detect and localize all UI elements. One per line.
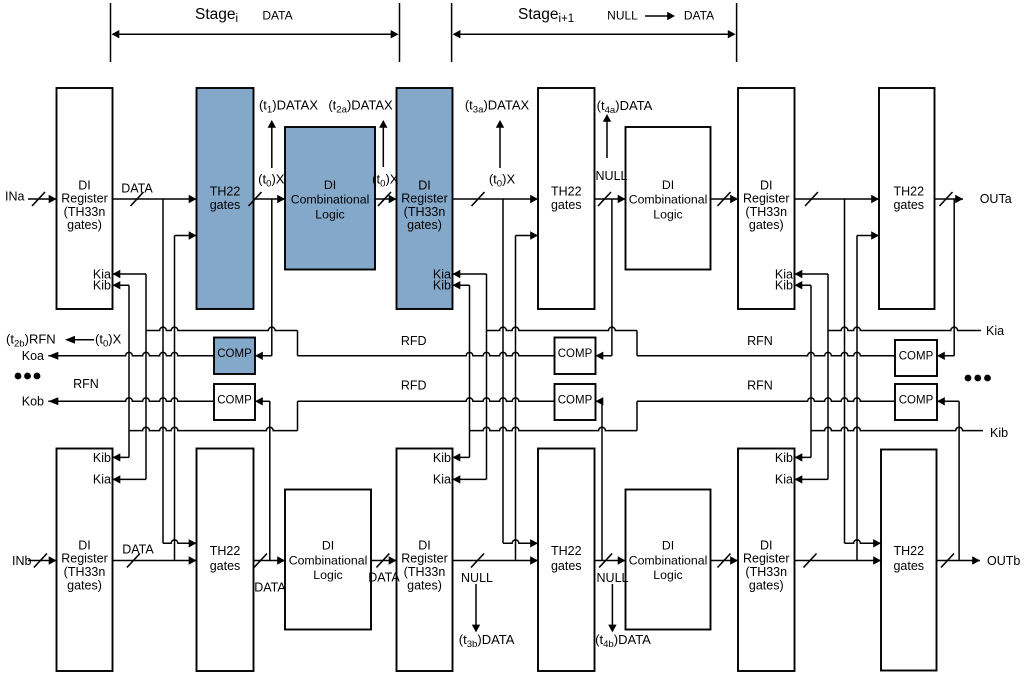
slash bus A6-A7 xyxy=(718,192,731,206)
wire Kib into bottom register stage1 xyxy=(113,456,130,458)
wire INb input line xyxy=(28,560,57,562)
slash bus A7-A8 xyxy=(805,192,818,206)
svg-text:(TH33n: (TH33n xyxy=(404,565,446,579)
box DI Combinational Logic A3 (blue) xyxy=(285,127,375,270)
box DI Register B4 xyxy=(397,449,453,672)
wire top data A1-A2 xyxy=(113,198,197,200)
wire RFN elbow vertical b #2 xyxy=(636,401,638,430)
svg-text:DATA: DATA xyxy=(262,9,292,23)
svg-text:Register: Register xyxy=(401,192,448,206)
svg-text:(TH33n: (TH33n xyxy=(64,205,106,219)
box DI Register A1 (top stage i input register) xyxy=(57,88,113,309)
svg-text:COMP: COMP xyxy=(558,348,593,360)
double arrow Stage i+1 xyxy=(460,33,728,35)
wire top data A3-A4 xyxy=(375,198,397,200)
wire Kib into bottom register stage2 xyxy=(453,456,470,458)
svg-text:Register: Register xyxy=(401,552,448,566)
wire bottom data B6-B7 xyxy=(711,560,739,562)
wire RFD upper link stage-i (L1) xyxy=(146,327,298,330)
wire bottom data B2-B3 xyxy=(254,560,286,562)
wire bottom data B4-B5 xyxy=(453,560,539,562)
svg-text:TH22: TH22 xyxy=(210,544,241,558)
wire Kib input from right edge xyxy=(811,427,983,430)
svg-text:Combinational: Combinational xyxy=(291,193,370,207)
wire COMP row-b feed vertical #2 xyxy=(601,401,603,560)
wire Kib into bottom register stage3 xyxy=(795,456,812,458)
wire bottom data B5-B6 xyxy=(595,560,626,562)
wire cross vertical top-data to bottom TH22 stage1 xyxy=(162,199,164,543)
svg-text:INb: INb xyxy=(12,554,32,568)
svg-text:NULL: NULL xyxy=(597,571,629,585)
slash bus B6-B7 xyxy=(718,554,731,568)
slash bus A2-A3 xyxy=(249,192,262,206)
wire cross vertical bottom-data to top TH22 stage2 xyxy=(515,236,517,561)
svg-text:DATA: DATA xyxy=(121,182,153,196)
wire top data A6-A7 xyxy=(711,198,739,200)
svg-text:DI: DI xyxy=(760,179,773,193)
svg-text:Kib: Kib xyxy=(990,426,1008,440)
svg-text:Kib: Kib xyxy=(93,451,111,465)
double arrow Stage i xyxy=(119,33,391,35)
slash bus A1-A2 xyxy=(131,192,144,206)
svg-text:gates: gates xyxy=(893,559,924,573)
wire elbow into bottom TH22 second input stage2 xyxy=(503,540,538,543)
arrow NULL to DATA xyxy=(645,15,668,17)
box TH22 gates B2 xyxy=(197,449,254,672)
svg-text:DI: DI xyxy=(418,179,431,193)
svg-text:Kia: Kia xyxy=(986,324,1004,338)
svg-text:gates: gates xyxy=(210,198,241,212)
box COMP C1 (blue) xyxy=(214,338,255,375)
wire elbow into bottom TH22 second input stage3 xyxy=(845,540,882,543)
wire Kia into bottom register stage2 xyxy=(453,478,487,480)
svg-text:NULL: NULL xyxy=(596,169,628,183)
svg-text:Kib: Kib xyxy=(433,279,451,293)
svg-text:DATA: DATA xyxy=(122,543,154,557)
wire Kia vertical stage2 xyxy=(486,274,488,479)
annotation down arrow t3b xyxy=(475,584,477,626)
slash INb bus xyxy=(34,554,47,568)
box TH22 gates A8 xyxy=(879,88,935,309)
svg-text:Combinational: Combinational xyxy=(629,553,708,567)
slash bus B4-B5 xyxy=(471,554,484,568)
svg-text:Koa: Koa xyxy=(22,349,44,363)
wire bottom data B7-B8 xyxy=(795,560,882,562)
box DI Register B1 (bottom) xyxy=(57,449,113,672)
svg-text:OUTa: OUTa xyxy=(980,192,1012,206)
svg-text:NULL: NULL xyxy=(461,571,493,585)
svg-text:DI: DI xyxy=(662,178,674,192)
wire top data A4-A5 xyxy=(453,198,539,200)
svg-text:(TH33n: (TH33n xyxy=(64,565,106,579)
svg-text:DATA: DATA xyxy=(254,581,286,595)
wire cross vertical top-data to bottom TH22 stage2 xyxy=(502,199,504,543)
wire bottom data B3-B4 xyxy=(371,560,397,562)
slash bus A5-A6 xyxy=(598,192,611,206)
wire Kob output line from COMP C2 xyxy=(48,398,214,401)
slash bus A8-OUTa xyxy=(940,192,953,206)
svg-text:Stagei​: Stagei​ xyxy=(195,6,238,25)
svg-text:DI: DI xyxy=(662,539,674,553)
svg-text:DATA: DATA xyxy=(368,571,400,585)
slash bus B1-B2 xyxy=(127,554,140,568)
wire Kib into top register stage3 xyxy=(795,284,812,286)
wire cross vertical bottom-data to top TH22 stage3 xyxy=(856,236,858,561)
stage bracket tick right (Stage i) xyxy=(399,3,401,62)
svg-text:gates: gates xyxy=(551,198,582,212)
wire elbow into top TH22 second input stage2 xyxy=(516,235,539,237)
box TH22 gates A5 xyxy=(538,88,595,309)
wire Kia vertical stage1 xyxy=(145,274,147,479)
wire Kib vertical stage3 xyxy=(810,285,812,457)
svg-text:gates): gates) xyxy=(67,579,102,593)
box DI Register A4 (blue) xyxy=(397,88,453,309)
arrow (t0)X to RFN xyxy=(72,339,95,341)
wire Kia into bottom register stage3 xyxy=(795,478,829,480)
svg-text:gates): gates) xyxy=(749,218,784,232)
wire COMP row-b feed vertical #3 xyxy=(958,401,960,560)
wire Koa output line from COMP C1 xyxy=(48,352,214,355)
svg-text:Logic: Logic xyxy=(315,207,344,221)
slash bus B7-B8 xyxy=(804,554,817,568)
svg-text:COMP: COMP xyxy=(558,395,593,407)
wire top data A8-OUTa xyxy=(935,198,964,200)
svg-text:gates: gates xyxy=(210,559,241,573)
svg-text:RFN: RFN xyxy=(747,334,773,348)
wire RFN upper link stage-i+1 xyxy=(487,327,638,330)
wire Kib into top register stage1 xyxy=(113,284,130,286)
svg-text:Kib: Kib xyxy=(775,279,793,293)
svg-text:RFN: RFN xyxy=(73,377,99,391)
wire bottom data B1-B2 xyxy=(113,560,197,562)
box COMP C6 xyxy=(895,384,937,420)
box DI Register A7 xyxy=(738,88,795,309)
box TH22 gates A2 (blue) xyxy=(197,88,254,309)
stage bracket tick left (Stage i+1) xyxy=(451,3,453,62)
svg-text:DATA: DATA xyxy=(684,9,714,23)
wire cross vertical bottom-data to top TH22 stage1 xyxy=(174,236,176,561)
svg-text:Kia: Kia xyxy=(775,472,793,486)
box DI Combinational Logic A6 xyxy=(626,127,711,270)
wire cross vertical top-data to bottom TH22 stage3 xyxy=(844,199,846,543)
svg-text:DI: DI xyxy=(760,538,773,552)
svg-text:COMP: COMP xyxy=(217,395,252,407)
box DI Combinational Logic B6 xyxy=(626,490,711,630)
svg-text:Kib: Kib xyxy=(93,279,111,293)
svg-text:gates): gates) xyxy=(749,579,784,593)
svg-text:COMP: COMP xyxy=(217,348,252,360)
svg-text:RFD: RFD xyxy=(401,334,427,348)
svg-text:COMP: COMP xyxy=(899,395,934,407)
wire RFD line into COMP C4 xyxy=(298,398,555,401)
svg-text:NULL: NULL xyxy=(607,9,638,23)
svg-text:Logic: Logic xyxy=(653,207,682,221)
svg-text:DI: DI xyxy=(324,178,336,192)
annotation up arrow t4a xyxy=(606,120,608,158)
box COMP C3 xyxy=(555,338,596,375)
svg-text:Kib: Kib xyxy=(433,451,451,465)
annotation up arrow t1 xyxy=(271,126,273,168)
wire Kib vertical stage2 xyxy=(469,285,471,457)
svg-text:Kia: Kia xyxy=(93,472,111,486)
wire RFN line into COMP C5 xyxy=(637,352,895,355)
wire RFN lower link stage-i+1 xyxy=(470,427,638,430)
wire INa input line xyxy=(28,198,57,200)
wire top data A5-A6 xyxy=(595,198,626,200)
svg-text:TH22: TH22 xyxy=(551,544,582,558)
svg-text:Combinational: Combinational xyxy=(629,193,708,207)
svg-text:OUTb: OUTb xyxy=(987,554,1020,568)
svg-text:DI: DI xyxy=(418,538,431,552)
stage bracket tick left (Stage i) xyxy=(110,3,112,62)
svg-text:(TH33n: (TH33n xyxy=(745,205,787,219)
wire RFN elbow vertical a #2 xyxy=(636,331,638,356)
wire COMP row-a feed vertical #3 xyxy=(953,199,955,356)
svg-text:TH22: TH22 xyxy=(210,185,241,199)
box TH22 gates B8 xyxy=(881,450,937,671)
wire Kia vertical stage3 xyxy=(827,274,829,479)
wire RFN line into COMP C6 xyxy=(637,398,895,401)
box COMP C2 xyxy=(214,384,255,420)
svg-text:Kia: Kia xyxy=(433,472,451,486)
wire elbow into top TH22 second input stage1 xyxy=(175,235,197,237)
slash bus A4-A5 xyxy=(472,192,485,206)
box COMP C5 xyxy=(895,340,937,376)
svg-text:DI: DI xyxy=(78,538,91,552)
svg-text:gates): gates) xyxy=(407,218,442,232)
wire Kia input from right edge xyxy=(828,327,981,330)
svg-text:COMP: COMP xyxy=(899,351,934,363)
svg-text:Kib: Kib xyxy=(775,451,793,465)
wire top data A2-A3 xyxy=(254,198,286,200)
svg-text:(TH33n: (TH33n xyxy=(745,565,787,579)
svg-text:(TH33n: (TH33n xyxy=(404,205,446,219)
box TH22 gates B5 xyxy=(538,449,595,672)
wire Kia into top register stage1 xyxy=(113,273,147,275)
wire COMP row-a feed vertical #1 xyxy=(271,199,273,356)
annotation down arrow t4b xyxy=(611,584,613,626)
wire Kia into top register stage3 xyxy=(795,273,829,275)
wire RFD lower link stage-i (L3) xyxy=(129,427,298,430)
wire Kia into top register stage2 xyxy=(453,273,487,275)
wire bottom data B8-OUTb xyxy=(937,560,981,562)
wire RFD line into COMP C3 xyxy=(298,352,555,355)
svg-text:gates: gates xyxy=(893,198,924,212)
svg-text:TH22: TH22 xyxy=(893,544,924,558)
wire elbow into top TH22 second input stage3 xyxy=(857,235,879,237)
wire RFD elbow vertical a #1 xyxy=(297,331,299,356)
svg-text:TH22: TH22 xyxy=(893,185,924,199)
wire elbow into bottom TH22 second input stage1 xyxy=(163,540,197,543)
slash bus B2-B3 xyxy=(254,554,267,568)
svg-text:gates: gates xyxy=(551,559,582,573)
slash bus B3-B4 xyxy=(376,554,389,568)
slash INa bus xyxy=(32,192,45,206)
box COMP C4 xyxy=(555,384,596,420)
svg-text:Logic: Logic xyxy=(653,568,682,582)
wire Kib into top register stage2 xyxy=(453,284,470,286)
svg-text:Register: Register xyxy=(743,552,790,566)
svg-text:RFN: RFN xyxy=(747,379,773,393)
wire COMP row-a feed vertical #2 xyxy=(611,199,613,356)
stage bracket tick right (Stage i+1) xyxy=(736,3,738,62)
svg-text:RFD: RFD xyxy=(401,379,427,393)
ellipsis dots left xyxy=(15,373,22,380)
svg-text:Logic: Logic xyxy=(313,568,342,582)
box DI Register B7 xyxy=(738,449,795,672)
ellipsis dots right xyxy=(965,375,972,382)
svg-text:DI: DI xyxy=(322,539,334,553)
box DI Combinational Logic B3 xyxy=(285,490,371,630)
svg-text:Register: Register xyxy=(743,192,790,206)
slash bus A3-A4 xyxy=(378,192,391,206)
wire top data A7-A8 xyxy=(795,198,880,200)
slash bus B5-B6 xyxy=(599,554,612,568)
svg-text:DI: DI xyxy=(78,179,91,193)
svg-text:TH22: TH22 xyxy=(551,185,582,199)
svg-text:Register: Register xyxy=(61,552,108,566)
wire Kib vertical stage1 xyxy=(128,285,130,457)
svg-text:INa: INa xyxy=(5,190,25,204)
wire COMP row-b feed vertical #1 xyxy=(269,401,271,560)
svg-text:Kob: Kob xyxy=(22,395,44,409)
svg-text:gates): gates) xyxy=(67,218,102,232)
slash bus B8-OUTb xyxy=(941,554,954,568)
annotation up arrow t3a xyxy=(499,126,501,168)
annotation up arrow t2a xyxy=(382,126,384,167)
svg-text:gates): gates) xyxy=(407,579,442,593)
wire RFD elbow vertical b #1 xyxy=(297,401,299,430)
svg-text:Register: Register xyxy=(61,192,108,206)
svg-text:Combinational: Combinational xyxy=(289,553,368,567)
wire Kia into bottom register stage1 xyxy=(113,478,147,480)
